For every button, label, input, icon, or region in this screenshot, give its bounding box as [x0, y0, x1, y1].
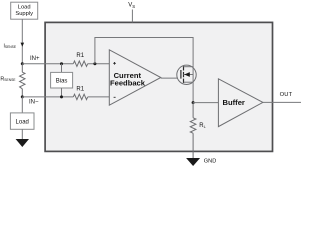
wire Vs to box	[131, 10, 133, 23]
load box	[10, 113, 34, 129]
svg-text:R1: R1	[76, 87, 84, 93]
svg-text:R1: R1	[76, 53, 84, 59]
svg-text:GND: GND	[204, 158, 216, 164]
svg-text:OUT: OUT	[280, 92, 293, 98]
wire IN+ left segment	[22, 63, 73, 65]
feedback wire over the top	[95, 38, 193, 66]
svg-text:IN−: IN−	[29, 100, 39, 106]
svg-text:Buffer: Buffer	[223, 98, 245, 107]
node source/RL junction	[192, 101, 195, 104]
svg-text:Supply: Supply	[15, 11, 33, 17]
load supply box	[11, 2, 38, 19]
wire R1 to op-amp -	[88, 96, 110, 98]
resistor R1 bottom	[73, 94, 87, 99]
IC body box	[45, 22, 272, 151]
svg-text:Load: Load	[16, 119, 29, 125]
wire load supply to node IN+	[21, 19, 23, 64]
wire R1 to op-amp +	[88, 63, 110, 65]
node bias bottom tap	[60, 95, 63, 98]
op-amp U1 current feedback	[109, 50, 161, 105]
bias box	[51, 72, 73, 88]
node IN+ external	[21, 62, 24, 65]
current direction arrow	[21, 43, 25, 47]
svg-text:ISENSE: ISENSE	[4, 43, 17, 49]
wire mosfet source down to junction	[192, 66, 194, 103]
wire IN- node to load	[21, 97, 23, 113]
wire junction to buffer	[193, 102, 219, 104]
svg-text:VS: VS	[128, 3, 135, 9]
wire IN- left segment	[22, 96, 73, 98]
svg-text:Feedback: Feedback	[110, 79, 146, 88]
wire load to ground	[21, 129, 23, 139]
resistor Rsense	[20, 64, 25, 97]
wire bias bottom	[61, 88, 63, 97]
ground (load)	[16, 139, 29, 147]
ground GND	[186, 158, 200, 166]
node summing + input	[93, 62, 96, 65]
resistor RL	[190, 103, 196, 159]
svg-text:RSENSE: RSENSE	[0, 76, 16, 82]
svg-text:Load: Load	[18, 5, 31, 11]
svg-text:Bias: Bias	[56, 78, 68, 84]
wire OUT	[263, 101, 301, 103]
buffer amp U2	[218, 79, 263, 127]
wire bias top	[61, 64, 63, 73]
node IN- external	[21, 95, 24, 98]
wire op-amp output to gate	[161, 77, 182, 79]
svg-text:RL: RL	[199, 123, 206, 129]
node bias top tap	[60, 62, 63, 65]
resistor R1 top	[73, 61, 87, 66]
svg-text:IN+: IN+	[30, 56, 40, 62]
transistor Q1 mosfet	[177, 65, 196, 84]
